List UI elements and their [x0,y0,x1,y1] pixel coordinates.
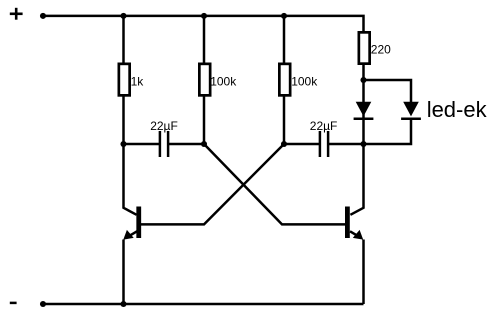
wire top supply rail [43,16,364,32]
wire bottom supply rail [43,303,364,306]
wire top rail to resistor 1k [122,16,125,63]
svg-text:1k: 1k [131,75,145,89]
LED D2 [401,102,421,119]
node top rail junction B [201,13,207,19]
wire resistor 100k right to node C2 [283,96,286,145]
resistor 1k [119,64,144,96]
wire collector Q2 [350,144,363,215]
node top rail junction C [281,13,287,19]
LED D1 [354,102,374,119]
capacitor 22uF right [310,119,338,157]
wire emitter Q2 to bottom rail [362,240,365,305]
node top terminal dot [40,13,46,19]
resistor 100k left [199,64,237,96]
wire top rail to resistor 100k left [203,16,206,63]
node top rail junction A [120,13,126,19]
svg-text:100k: 100k [291,75,318,89]
wire cross coupling C2 to Q1 base [141,144,284,224]
wire capacitor right to node D2 [329,143,364,146]
node B2 junction dot [201,141,207,147]
wire resistor 100k left to node B2 [203,96,206,145]
node LED bottom [360,141,366,147]
wire resistor 220 to LED node [362,64,365,81]
resistor 100k right [279,64,318,96]
node LED top [360,77,366,83]
wire capacitor left to node B2 [169,143,204,146]
wire top rail to resistor 100k right [283,16,286,63]
node C2 junction dot [281,141,287,147]
svg-text:100k: 100k [210,75,237,89]
transistor Q1 [123,207,138,240]
wire collector Q1 [124,144,137,215]
wire LED left anode [362,80,365,144]
positive supply terminal + [10,8,23,20]
negative supply terminal - [10,302,17,305]
svg-text:led-ek: led-ek [427,97,488,122]
wire resistor 1k to node A2 [122,96,125,145]
svg-text:220: 220 [371,42,391,56]
wire LED right cathode down [364,119,412,144]
resistor 220 [359,32,391,63]
node bottom terminal dot [40,301,46,307]
wire node C2 to capacitor right [284,143,319,146]
svg-text:22µF: 22µF [310,119,338,133]
wire cross coupling B2 to Q2 base [204,144,345,224]
transistor Q2 [347,207,363,240]
wire LED branch top [364,80,412,103]
node A2 junction dot [120,141,126,147]
wire node A2 to capacitor left [124,143,160,146]
node bottom rail junction [120,301,126,307]
capacitor 22uF left [150,119,178,157]
svg-text:22µF: 22µF [150,119,178,133]
wire emitter Q1 to bottom rail [122,240,125,305]
